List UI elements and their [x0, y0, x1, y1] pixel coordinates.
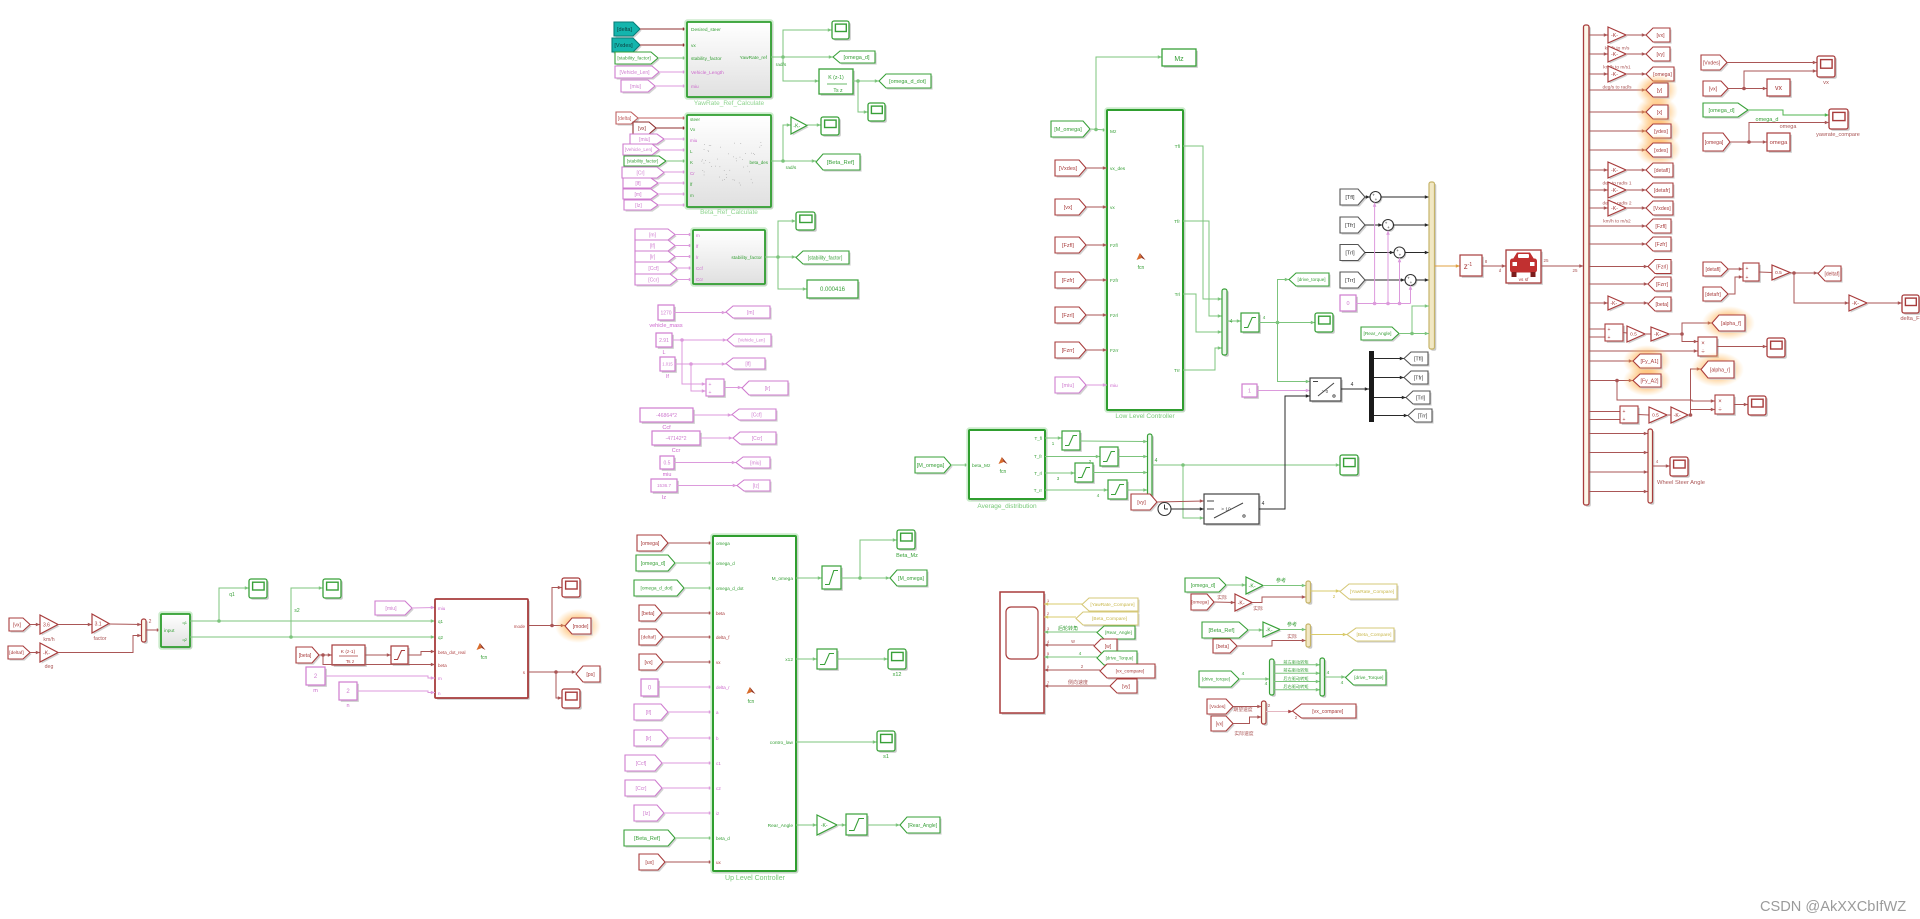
svg-text:实际速度: 实际速度 [1234, 730, 1253, 737]
svg-text:[Trl]: [Trl] [1345, 251, 1355, 257]
svg-text:q1: q1 [229, 592, 235, 598]
svg-text:[Ccr]: [Ccr] [752, 436, 763, 442]
svg-text:[Tfl]: [Tfl] [1345, 195, 1355, 201]
svg-text:stability_factor: stability_factor [691, 56, 722, 62]
svg-text:[stability_factor]: [stability_factor] [808, 255, 843, 261]
svg-text:[M_omega]: [M_omega] [917, 463, 945, 469]
svg-text:vx: vx [716, 660, 721, 665]
svg-text:[Tfr]: [Tfr] [1345, 223, 1355, 229]
svg-text:s2: s2 [294, 608, 300, 614]
svg-text:[M_omega]: [M_omega] [1054, 127, 1082, 133]
svg-text:[miu]: [miu] [1062, 383, 1074, 389]
svg-text:steer: steer [690, 117, 701, 122]
svg-text:-K-: -K- [1852, 301, 1859, 307]
svg-text:[delta]: [delta] [618, 116, 632, 122]
svg-text:2: 2 [1268, 703, 1271, 709]
svg-text:[drive_torque]: [drive_torque] [1202, 677, 1230, 682]
svg-text:+: + [1608, 335, 1611, 341]
svg-text:[vy]: [vy] [1137, 500, 1146, 506]
svg-text:vx: vx [1110, 206, 1115, 211]
svg-text:[lf]: [lf] [650, 243, 656, 249]
svg-text:s1: s1 [883, 754, 889, 760]
svg-text:0.5: 0.5 [1630, 332, 1637, 338]
svg-text:lf: lf [666, 374, 669, 380]
svg-text:[detafl]: [detafl] [1654, 168, 1670, 174]
svg-text:Fzfr: Fzfr [1110, 278, 1119, 284]
svg-text:[Fzrr]: [Fzrr] [1656, 282, 1669, 288]
svg-text:-K-: -K- [1674, 413, 1681, 419]
svg-text:[detafl]: [detafl] [1705, 267, 1721, 273]
svg-text:w: w [1071, 639, 1075, 645]
svg-text:omega_d: omega_d [716, 561, 735, 566]
svg-text:[deltaf]: [deltaf] [9, 650, 23, 656]
svg-text:[Rear_Angle]: [Rear_Angle] [1364, 331, 1392, 337]
svg-text:[Vxdes]: [Vxdes] [1653, 206, 1671, 212]
svg-text:-K-: -K- [1654, 332, 1661, 338]
svg-text:m: m [696, 233, 700, 238]
svg-text:[Beta_Ref]: [Beta_Ref] [634, 836, 660, 842]
svg-text:[deltaf]: [deltaf] [1824, 271, 1840, 277]
svg-text:stability_factor: stability_factor [731, 255, 762, 261]
svg-text:+: + [1608, 327, 1611, 333]
svg-text:[beta]: [beta] [1656, 302, 1670, 308]
svg-text:Cr: Cr [690, 171, 695, 176]
svg-text:1536.7: 1536.7 [657, 483, 671, 488]
svg-text:[Vxdes]: [Vxdes] [1703, 60, 1721, 66]
svg-text:[ux]: [ux] [645, 860, 654, 866]
svg-text:beta_Mz: beta_Mz [972, 463, 991, 469]
svg-text:[Rear_Angle]: [Rear_Angle] [908, 823, 938, 829]
svg-text:[Ccf]: [Ccf] [751, 412, 762, 418]
svg-text:0.000416: 0.000416 [820, 287, 846, 293]
svg-text:×: × [1718, 399, 1722, 405]
svg-text:[x]: [x] [1657, 110, 1663, 116]
svg-text:0.5: 0.5 [664, 460, 671, 466]
svg-text:[omega]: [omega] [1191, 600, 1208, 606]
svg-text:Trr: Trr [1174, 368, 1180, 374]
svg-text:T_rl: T_rl [1034, 471, 1042, 476]
svg-text:[lr]: [lr] [646, 736, 652, 742]
svg-text:[beta]: [beta] [299, 653, 312, 659]
svg-text:+: + [1399, 253, 1402, 258]
svg-text:0: 0 [1346, 301, 1349, 307]
svg-text:-K-: -K- [1611, 33, 1618, 39]
svg-text:> 10: > 10 [1221, 507, 1231, 513]
svg-text:[Cr]: [Cr] [636, 170, 645, 176]
svg-text:[xdes]: [xdes] [1654, 148, 1668, 154]
svg-text:input: input [164, 628, 175, 634]
svg-text:Ts z: Ts z [833, 88, 843, 94]
svg-text:Mz: Mz [1174, 56, 1184, 63]
svg-text:-K-: -K- [1249, 583, 1256, 589]
svg-text:[omega_d]: [omega_d] [1191, 583, 1216, 589]
svg-text:-K-: -K- [1610, 301, 1617, 307]
svg-text:1.015: 1.015 [662, 362, 673, 367]
svg-text:Fzrr: Fzrr [1110, 348, 1119, 354]
svg-text:-K-: -K- [1266, 627, 1273, 633]
svg-text:[m]: [m] [649, 232, 657, 238]
svg-text:Low Level Controller: Low Level Controller [1115, 413, 1175, 420]
svg-text:miu: miu [690, 138, 698, 143]
svg-text:[vx]: [vx] [1064, 205, 1073, 211]
svg-text:K (z-1): K (z-1) [828, 75, 844, 81]
svg-text:[miu]: [miu] [385, 606, 397, 612]
svg-text:[drive_Torque]: [drive_Torque] [1354, 675, 1383, 680]
svg-text:+: + [1623, 417, 1626, 423]
svg-text:[vy]: [vy] [1122, 684, 1130, 690]
svg-text:rad/s: rad/s [776, 62, 787, 68]
svg-text:[Trr]: [Trr] [1418, 414, 1428, 420]
svg-text:[Ccr]: [Ccr] [648, 277, 659, 283]
svg-text:vx: vx [1775, 85, 1783, 92]
svg-text:Vehicle_Length: Vehicle_Length [691, 70, 724, 76]
svg-text:vx_des: vx_des [1110, 166, 1126, 172]
svg-text:实际: 实际 [1217, 594, 1227, 601]
svg-text:[Ccf]: [Ccf] [648, 266, 659, 272]
svg-text:[beta]: [beta] [642, 611, 656, 617]
svg-text:[Beta_Compare]: [Beta_Compare] [1357, 632, 1392, 638]
svg-text:q1: q1 [438, 619, 444, 624]
svg-text:[YawRate_Compare]: [YawRate_Compare] [1090, 602, 1134, 608]
svg-text:[vx]: [vx] [13, 622, 22, 628]
svg-text:Wheel Steer Angle: Wheel Steer Angle [1657, 480, 1705, 486]
svg-text:Ccr: Ccr [672, 448, 681, 454]
svg-text:[vx]: [vx] [644, 660, 653, 666]
svg-text:25: 25 [1572, 268, 1578, 273]
svg-text:q2: q2 [438, 635, 444, 640]
svg-text:[w]: [w] [1105, 644, 1112, 650]
svg-text:+: + [1387, 225, 1390, 230]
svg-text:[Fzfl]: [Fzfl] [1655, 224, 1667, 230]
svg-text:[Vehicle_Len]: [Vehicle_Len] [738, 338, 764, 343]
svg-text:[vx]: [vx] [638, 126, 646, 132]
svg-text:> 0: > 0 [1322, 389, 1329, 394]
svg-text:[Vehicle_Len]: [Vehicle_Len] [619, 70, 650, 76]
svg-text:参考: 参考 [1287, 621, 1297, 628]
svg-text:beta: beta [716, 611, 725, 616]
svg-text:m: m [313, 688, 318, 694]
svg-text:1270: 1270 [660, 310, 671, 316]
svg-text:Rear_Angle: Rear_Angle [768, 823, 794, 829]
svg-text:[detafr]: [detafr] [1705, 292, 1721, 298]
svg-text:-K-: -K- [793, 123, 800, 129]
svg-text:4: 4 [1155, 458, 1158, 464]
svg-text:[Vehicle_Len]: [Vehicle_Len] [625, 147, 653, 152]
svg-text:[Fy_A2]: [Fy_A2] [1641, 378, 1659, 384]
svg-text:[Ccf]: [Ccf] [636, 761, 647, 767]
svg-text:CSDN @AkXXCbIfWZ: CSDN @AkXXCbIfWZ [1760, 899, 1906, 915]
svg-text:前右驱动转矩: 前右驱动转矩 [1283, 667, 1308, 674]
svg-text:T_rr: T_rr [1034, 488, 1043, 493]
svg-text:K: K [690, 160, 693, 165]
svg-text:Average_distribution: Average_distribution [977, 503, 1037, 510]
svg-text:[Fzrl]: [Fzrl] [1062, 313, 1075, 319]
svg-text:-K-: -K- [43, 650, 50, 656]
svg-text:[mode]: [mode] [573, 624, 589, 630]
svg-text:[alpha_f]: [alpha_f] [1721, 321, 1741, 327]
svg-text:[Beta_Ref]: [Beta_Ref] [1209, 628, 1235, 634]
svg-text:后左驱动转矩: 后左驱动转矩 [1283, 675, 1308, 682]
svg-text:[stability_factor]: [stability_factor] [627, 159, 658, 164]
svg-text:2: 2 [149, 619, 152, 625]
svg-text:-K-: -K- [1611, 72, 1618, 78]
svg-text:Beta_Ref_Calculate: Beta_Ref_Calculate [700, 209, 758, 216]
svg-text:前左驱动转矩: 前左驱动转矩 [1283, 658, 1308, 665]
svg-text:[Rear_Angle]: [Rear_Angle] [1105, 630, 1132, 635]
svg-text:[m]: [m] [635, 192, 643, 198]
svg-text:km/h to m/s2: km/h to m/s2 [1603, 219, 1631, 225]
svg-text:[miu]: [miu] [750, 460, 761, 466]
svg-text:1: 1 [1248, 389, 1251, 395]
svg-text:[y]: [y] [1657, 88, 1663, 94]
svg-text:[Vxdes]: [Vxdes] [1059, 166, 1078, 172]
svg-text:vs sf: vs sf [1519, 277, 1530, 283]
svg-text:+: + [1410, 280, 1413, 285]
svg-text:[omega_d_dot]: [omega_d_dot] [640, 586, 672, 592]
svg-text:miu: miu [438, 606, 446, 611]
svg-text:beta_dot_real: beta_dot_real [438, 650, 466, 655]
svg-text:后轮转角: 后轮转角 [1058, 625, 1078, 632]
svg-text:delta_r: delta_r [716, 685, 730, 690]
svg-text:0.5: 0.5 [1775, 270, 1782, 276]
svg-text:K (z-1): K (z-1) [341, 649, 356, 655]
svg-text:-K-: -K- [1611, 206, 1618, 212]
svg-text:4: 4 [1341, 680, 1344, 686]
svg-text:[lf]: [lf] [745, 361, 751, 367]
svg-text:Vx: Vx [690, 127, 696, 132]
svg-text:fcn: fcn [748, 699, 755, 705]
svg-text:fcn: fcn [481, 655, 488, 661]
svg-text:[omega_d]: [omega_d] [1709, 108, 1735, 114]
svg-text:T_fr: T_fr [1034, 454, 1043, 459]
svg-text:rad/s: rad/s [786, 165, 797, 171]
svg-text:+: + [709, 382, 712, 388]
svg-text:Iz: Iz [662, 495, 667, 501]
svg-text:[omega_d]: [omega_d] [641, 561, 666, 567]
svg-text:[omega]: [omega] [641, 541, 660, 547]
svg-text:delta_F: delta_F [1900, 316, 1920, 322]
svg-text:n: n [346, 703, 349, 709]
svg-text:[miu]: [miu] [639, 137, 650, 143]
svg-text:[omega_d]: [omega_d] [844, 55, 870, 61]
svg-text:[Trr]: [Trr] [1345, 278, 1355, 284]
svg-text:[Iz]: [Iz] [643, 811, 650, 817]
svg-text:m: m [690, 193, 694, 198]
svg-text:Fzrl: Fzrl [1110, 313, 1118, 319]
svg-text:[Beta_Compare]: [Beta_Compare] [1092, 616, 1127, 622]
svg-text:vx: vx [691, 44, 696, 49]
svg-text:[Fzfl]: [Fzfl] [1062, 243, 1074, 249]
svg-text:m: m [438, 676, 442, 681]
svg-text:vehicle_mass: vehicle_mass [649, 323, 683, 329]
svg-text:delta_f: delta_f [716, 635, 730, 640]
svg-text:[lr]: [lr] [650, 254, 656, 260]
svg-text:x12: x12 [785, 657, 793, 663]
svg-text:Ccr: Ccr [696, 277, 703, 282]
svg-text:[vx]: [vx] [1656, 33, 1665, 39]
svg-text:omega: omega [1780, 124, 1798, 130]
svg-text:YawRate_Ref_Calculate: YawRate_Ref_Calculate [694, 100, 765, 107]
svg-text:[Vxdes]: [Vxdes] [614, 43, 633, 49]
svg-text:fcn: fcn [1000, 469, 1007, 475]
svg-text:[stability_factor]: [stability_factor] [617, 56, 650, 62]
svg-text:[drive_Torque]: [drive_Torque] [1106, 656, 1134, 661]
svg-text:×: × [1701, 341, 1705, 347]
svg-text:4: 4 [1262, 501, 1265, 507]
svg-text:[Fzfr]: [Fzfr] [1655, 242, 1667, 248]
svg-text:[Tfr]: [Tfr] [1414, 376, 1424, 382]
svg-text:侧向速度: 侧向速度 [1068, 679, 1088, 686]
svg-text:factor: factor [94, 636, 107, 642]
svg-text:25: 25 [1543, 258, 1549, 263]
svg-text:c1: c1 [716, 761, 721, 766]
svg-text:omega: omega [716, 541, 730, 546]
svg-text:Ccf: Ccf [662, 425, 671, 431]
svg-text:[deltaf]: [deltaf] [641, 635, 655, 641]
svg-text:-46864*2: -46864*2 [656, 413, 677, 419]
svg-text:fcn: fcn [1138, 265, 1145, 271]
svg-text:yawrate_compare: yawrate_compare [1816, 132, 1860, 138]
svg-text:[delta]: [delta] [617, 27, 632, 33]
svg-text:x12: x12 [893, 672, 902, 678]
svg-text:miu: miu [663, 472, 672, 478]
svg-text:实际: 实际 [1253, 605, 1263, 612]
svg-text:[drive_torque]: [drive_torque] [1297, 277, 1325, 282]
svg-text:-K-: -K- [1611, 168, 1618, 174]
svg-text:3.1: 3.1 [95, 621, 102, 627]
svg-text:km/h: km/h [43, 637, 54, 643]
svg-text:miu: miu [691, 84, 699, 90]
svg-text:[omega]: [omega] [1705, 140, 1724, 146]
svg-text:[Vxdes]: [Vxdes] [1210, 704, 1226, 710]
svg-text:[omega_d_dot]: [omega_d_dot] [889, 79, 926, 85]
svg-text:[ps]: [ps] [586, 672, 595, 678]
svg-text:Tfl: Tfl [1175, 144, 1180, 150]
svg-text:期望速度: 期望速度 [1233, 706, 1252, 713]
svg-text:contro_law: contro_law [770, 740, 794, 746]
svg-text:omega: omega [1770, 140, 1789, 146]
svg-text:Ccf: Ccf [696, 266, 703, 271]
svg-text:[lr]: [lr] [765, 386, 771, 392]
svg-text:[Tfl]: [Tfl] [1414, 357, 1424, 363]
svg-text:-K-: -K- [1238, 600, 1245, 606]
svg-text:miu: miu [1110, 383, 1118, 389]
svg-text:[Fzrl]: [Fzrl] [1656, 264, 1668, 270]
svg-text:[lf]: [lf] [646, 710, 652, 716]
svg-text:Trl: Trl [1175, 292, 1180, 298]
svg-text:[vx_compare]: [vx_compare] [1312, 709, 1344, 715]
svg-text:[m]: [m] [747, 310, 755, 316]
svg-text:+: + [1746, 266, 1749, 272]
svg-text:omega_d_dot: omega_d_dot [716, 586, 744, 591]
svg-text:YawRate_ref: YawRate_ref [740, 55, 768, 61]
svg-text:Fzfl: Fzfl [1110, 243, 1118, 249]
svg-text:q1: q1 [183, 620, 188, 625]
svg-text:-K-: -K- [821, 823, 828, 829]
svg-text:[vx_compare]: [vx_compare] [1116, 669, 1145, 675]
svg-text:-47142*2: -47142*2 [665, 436, 686, 442]
svg-text:4: 4 [1230, 319, 1233, 325]
svg-text:[Trl]: [Trl] [1416, 396, 1426, 402]
svg-text:-K-: -K- [1611, 52, 1618, 58]
svg-text:c2: c2 [716, 786, 721, 791]
svg-text:mode: mode [514, 624, 526, 629]
svg-text:[vy]: [vy] [1656, 52, 1665, 58]
svg-text:[miu]: [miu] [630, 84, 641, 90]
svg-text:后右驱动转矩: 后右驱动转矩 [1283, 683, 1308, 690]
svg-text:L: L [662, 350, 665, 356]
svg-text:[Iz]: [Iz] [635, 203, 642, 209]
svg-text:3.6: 3.6 [43, 622, 50, 628]
svg-text:参考: 参考 [1276, 577, 1286, 584]
svg-text:T_fl: T_fl [1034, 436, 1042, 441]
svg-text:deg: deg [45, 664, 54, 670]
svg-text:beta: beta [438, 663, 447, 668]
svg-text:[Ccr]: [Ccr] [636, 786, 648, 792]
svg-text:Desired_steer: Desired_steer [691, 27, 721, 33]
svg-text:[alpha_r]: [alpha_r] [1710, 367, 1731, 373]
svg-text:[Fzrr]: [Fzrr] [1062, 348, 1075, 354]
svg-text:[vx]: [vx] [1709, 87, 1718, 93]
svg-text:ux: ux [716, 860, 722, 865]
svg-text:-K-: -K- [1611, 188, 1618, 194]
svg-text:[Fy_A1]: [Fy_A1] [1641, 359, 1659, 365]
svg-text:实际: 实际 [1287, 633, 1297, 640]
svg-text:Tfr: Tfr [1174, 219, 1180, 225]
svg-text:+: + [1623, 409, 1626, 415]
svg-text:[ydes]: [ydes] [1654, 129, 1668, 135]
svg-text:2.91: 2.91 [659, 338, 669, 344]
svg-text:q2: q2 [183, 637, 188, 642]
svg-text:[vx]: [vx] [1216, 721, 1224, 727]
svg-text:4: 4 [1327, 670, 1330, 676]
svg-text:[M_omega]: [M_omega] [898, 576, 925, 582]
svg-text:+: + [1746, 275, 1749, 281]
svg-text:[detafr]: [detafr] [1654, 188, 1671, 194]
svg-text:beta_d: beta_d [716, 836, 730, 841]
svg-text:+: + [1375, 197, 1378, 202]
svg-text:Mz: Mz [1110, 129, 1117, 135]
svg-text:vx: vx [1823, 80, 1829, 86]
svg-text:4: 4 [1351, 382, 1354, 388]
svg-text:[lf]: [lf] [635, 181, 641, 187]
svg-text:+: + [709, 390, 712, 396]
svg-text:[Fzfr]: [Fzfr] [1062, 278, 1075, 284]
svg-text:[beta]: [beta] [1216, 644, 1229, 650]
svg-text:Up Level Controller: Up Level Controller [725, 875, 786, 882]
svg-text:M_omega: M_omega [772, 576, 794, 582]
svg-text:4: 4 [1242, 671, 1245, 677]
svg-text:Beta_Mz: Beta_Mz [896, 553, 918, 559]
svg-text:4: 4 [1265, 681, 1268, 687]
svg-text:0.5: 0.5 [1652, 413, 1659, 419]
svg-text:[Iz]: [Iz] [753, 483, 760, 489]
svg-text:[Beta_Ref]: [Beta_Ref] [827, 160, 855, 166]
svg-text:beta_des: beta_des [749, 160, 768, 165]
svg-text:[YawRate_Compare]: [YawRate_Compare] [1350, 589, 1394, 595]
